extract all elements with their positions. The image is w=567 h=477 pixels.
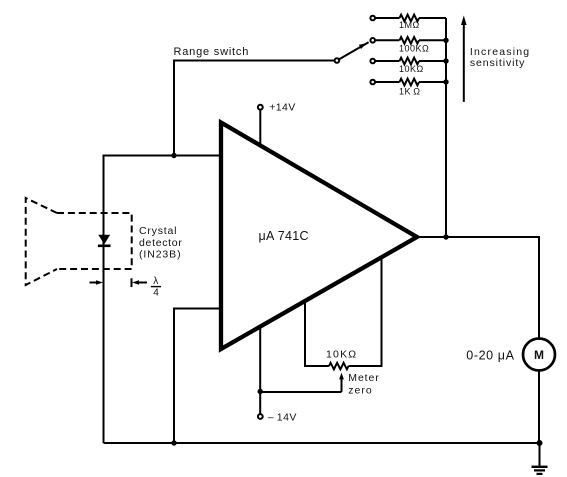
potentiometer R5 10K meter zero: [305, 257, 382, 369]
switch S1 arrowhead: [359, 43, 367, 49]
ground: [532, 443, 548, 474]
junction output / feedback bus: [443, 234, 448, 239]
resistor R1 1M ohm (terminal, leads, zigzag, label): [370, 15, 446, 31]
svg-text:10KΩ: 10KΩ: [399, 64, 424, 74]
op-amp U1 uA741C: [221, 123, 417, 350]
resistor R4 1K ohm: [370, 79, 446, 97]
junction bus-R4: [443, 79, 448, 84]
switch S1 pivot terminal: [335, 58, 340, 63]
terminal +14V: [258, 102, 296, 147]
svg-text:detector: detector: [139, 237, 183, 249]
svg-text:+14V: +14V: [269, 102, 295, 114]
junction bus-R2: [443, 38, 448, 43]
wire range-switch feed (vertical + horizontal to switch pivot): [174, 61, 334, 156]
svg-text:zero: zero: [348, 384, 372, 396]
junction meter / bottom rail / ground: [537, 440, 543, 446]
wire detector branch (left vertical + top horizontal to op-amp + input): [104, 156, 222, 444]
svg-text:4: 4: [153, 287, 159, 298]
resistor R2 100K ohm: [370, 37, 446, 54]
waveguide horn (dashed): [26, 198, 132, 285]
terminal -14V: [258, 414, 263, 419]
wire meter to bottom rail: [538, 371, 540, 443]
wire output: [417, 237, 539, 338]
wire V- supply tap: [259, 327, 261, 414]
resistor R3 10K ohm: [370, 58, 446, 74]
label Crystal detector (IN23B): [139, 225, 183, 260]
svg-text:λ: λ: [153, 276, 158, 287]
svg-text:Range switch: Range switch: [174, 46, 250, 58]
dimension lambda/4: [90, 276, 162, 298]
wire feedback bus (vertical from R1 down to output node): [445, 18, 447, 237]
junction bus-R3: [443, 58, 448, 63]
svg-text:1K Ω: 1K Ω: [399, 86, 421, 96]
potentiometer wiper: [260, 373, 344, 392]
svg-text:Crystal: Crystal: [139, 225, 177, 237]
svg-text:– 14V: – 14V: [268, 412, 297, 424]
svg-text:1MΩ: 1MΩ: [399, 20, 420, 30]
junction - input / bottom wire: [171, 440, 176, 445]
switch S1 arm: [339, 42, 368, 59]
svg-text:Meter: Meter: [348, 372, 379, 384]
label Meter zero: [348, 372, 379, 396]
wire inverting input (from bottom bus up to op-amp - input): [174, 309, 221, 444]
svg-text:M: M: [534, 348, 544, 362]
svg-text:sensitivity: sensitivity: [470, 57, 525, 69]
svg-text:10KΩ: 10KΩ: [326, 348, 357, 360]
svg-text:0-20 μA: 0-20 μA: [466, 348, 514, 362]
svg-text:100KΩ: 100KΩ: [399, 44, 429, 54]
wire bottom rail: [104, 442, 540, 444]
diode D1 crystal detector: [98, 235, 111, 246]
svg-text:(IN23B): (IN23B): [139, 248, 181, 260]
arrow increasing sensitivity: [461, 16, 530, 102]
svg-text:μA 741C: μA 741C: [259, 229, 309, 243]
meter M1: [523, 339, 555, 371]
junction V- / meter-zero wiper: [258, 389, 263, 394]
junction range-switch / + input: [171, 153, 176, 158]
